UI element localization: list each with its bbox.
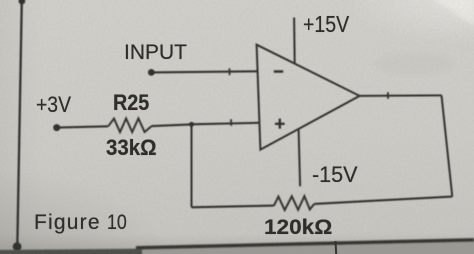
next figure vertical divider <box>335 241 338 254</box>
output wire <box>360 94 442 97</box>
bottom band right below border <box>136 240 474 254</box>
caption Figure 10 <box>34 211 130 235</box>
page edge highlight top right <box>432 0 474 26</box>
resistor R1 (R25 33k) zigzag <box>108 118 151 132</box>
feedback bottom wire left segment <box>192 206 274 208</box>
left rule bottom dot <box>13 242 22 251</box>
resistor R2 (120k) zigzag <box>274 196 314 210</box>
bottom shadow band left <box>0 249 142 254</box>
label R25 <box>113 90 149 116</box>
wire junction to op-amp plus input <box>192 123 260 125</box>
feedback vertical wire from junction <box>191 124 193 207</box>
label 120kOhm <box>264 215 332 240</box>
wire resistor to junction <box>152 124 192 126</box>
next figure top border line <box>136 240 474 248</box>
INPUT wire <box>151 71 257 72</box>
op-amp U1 <box>257 45 360 150</box>
-15V supply wire <box>299 129 301 186</box>
right vertical wire <box>442 95 453 196</box>
label 33kOhm <box>106 135 157 161</box>
feedback bottom wire right segment <box>314 197 452 204</box>
junction node dot <box>189 122 194 127</box>
terminal dot INPUT <box>148 69 155 76</box>
op-amp plus input sign <box>275 119 285 129</box>
terminal dot +3V <box>53 124 60 131</box>
+3V wire to resistor <box>57 126 108 127</box>
label -15V <box>312 162 358 188</box>
faint smudge <box>374 53 454 75</box>
pin tick on plus input wire <box>230 119 232 126</box>
pin tick on INPUT wire <box>228 68 230 75</box>
left rule top blob <box>19 0 26 4</box>
pin tick on output wire <box>387 92 389 99</box>
+15V supply wire <box>293 18 296 64</box>
op-amp minus input sign <box>274 70 283 73</box>
label +15V <box>303 11 349 38</box>
label +3V <box>36 92 71 118</box>
left page rule line <box>17 0 22 247</box>
label INPUT <box>124 40 187 65</box>
